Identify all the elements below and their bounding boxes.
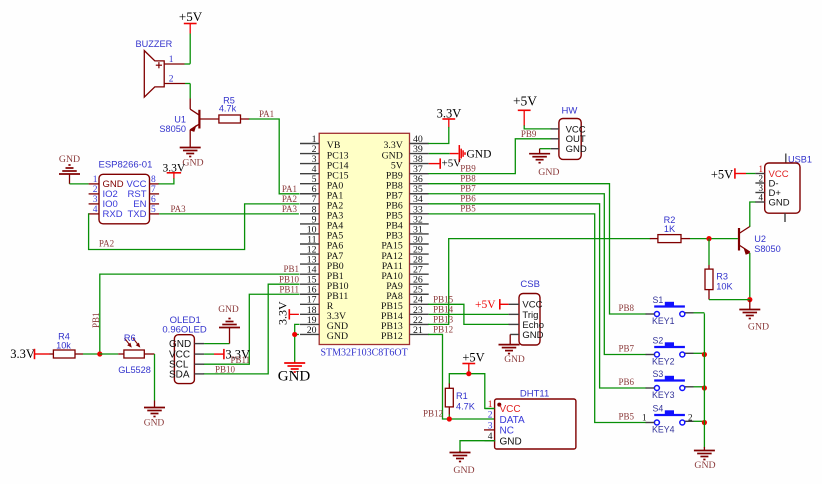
svg-text:10K: 10K xyxy=(716,281,733,291)
MCU U3 STM32F103C8T6 body xyxy=(319,133,409,344)
MCU pin 26 (PA9) stub and number xyxy=(386,275,428,292)
svg-text:PB10: PB10 xyxy=(279,274,300,284)
wire net PB10 from MCU pin 15 to OLED SDA xyxy=(204,284,299,374)
svg-text:2: 2 xyxy=(93,185,98,195)
MCU pin 10 (PA5) stub and number xyxy=(300,224,343,241)
DHT11 pin 2 DATA xyxy=(488,411,525,426)
MCU pin 22 (PB13) stub and number xyxy=(381,315,429,332)
CSB pin GND xyxy=(510,330,543,341)
svg-text:8: 8 xyxy=(151,175,156,185)
module HW label xyxy=(562,105,578,116)
svg-text:7: 7 xyxy=(151,185,156,195)
svg-text:HW: HW xyxy=(562,105,578,116)
resistor R4 xyxy=(50,350,84,358)
svg-text:S4: S4 xyxy=(653,404,664,414)
buzzer BZ1 label xyxy=(136,39,173,49)
net label PB11 (at MCU) xyxy=(279,284,299,294)
svg-text:2: 2 xyxy=(759,173,764,183)
svg-text:PB6: PB6 xyxy=(618,377,634,387)
svg-text:PA1: PA1 xyxy=(282,184,297,194)
label R5 xyxy=(223,95,235,105)
buzzer pin 2 xyxy=(164,75,190,85)
wire R6 to ground xyxy=(154,354,156,408)
MCU pin 35 (PB7) stub and number xyxy=(386,184,429,201)
svg-text:PB12: PB12 xyxy=(433,325,453,335)
net label PB10 (at MCU) xyxy=(279,274,300,284)
OLED pin VCC xyxy=(169,350,204,361)
MCU pin 32 (PB4) stub and number xyxy=(386,214,429,231)
module DHT11 label xyxy=(520,389,549,400)
svg-text:PB9: PB9 xyxy=(460,163,476,173)
wire 3.3V to MCU pin 40 xyxy=(429,128,449,144)
OLED pin SCL xyxy=(169,360,204,371)
switch S4 (KEY4) xyxy=(646,410,685,425)
MCU pin 15 (PB10) stub and number xyxy=(300,275,349,292)
MCU pin 25 (PA8) stub and number xyxy=(386,285,428,302)
svg-text:GND: GND xyxy=(278,369,311,385)
svg-text:ESP8266-01: ESP8266-01 xyxy=(99,159,153,170)
HW pin OUT xyxy=(551,134,586,145)
wire MCU pin 20 GND down to ground xyxy=(295,334,299,361)
module DHT11 body xyxy=(495,399,576,449)
module U2 ESP8266-01 body xyxy=(99,174,150,224)
svg-text:0.96OLED: 0.96OLED xyxy=(162,325,206,336)
svg-text:U1: U1 xyxy=(174,114,186,124)
net label PA3 (at ESP) xyxy=(171,204,187,214)
net label PB8 (at MCU) xyxy=(460,174,476,184)
MCU pin 30 (PA15) stub and number xyxy=(381,234,428,251)
wire right lead of S2 to common xyxy=(685,352,705,354)
junction at MCU pins 19/20 GND xyxy=(292,332,297,337)
svg-text:PB10: PB10 xyxy=(215,364,236,374)
wire OLED GND to ground (flipped up) xyxy=(204,328,229,344)
svg-text:GND: GND xyxy=(467,148,492,160)
wire MCU pin 39 to sideways ground xyxy=(429,153,459,155)
svg-text:21: 21 xyxy=(413,325,423,336)
wire net PA1 from R5 to MCU pin 6 xyxy=(250,119,299,194)
svg-text:+5V: +5V xyxy=(462,350,484,364)
net label PA2 (at MCU) xyxy=(282,194,297,204)
HW pin VCC xyxy=(551,124,586,135)
svg-text:PB15: PB15 xyxy=(433,294,454,304)
wire net PB15 from MCU pin 24 to CSB Echo xyxy=(429,304,509,324)
label R3 xyxy=(716,272,728,282)
CSB pin Trig xyxy=(509,310,539,321)
label 4.7k (R5 value) xyxy=(219,104,237,114)
wire 3.3V to ESP pin 8 xyxy=(159,179,174,184)
MCU label STM32F103C8T6OT xyxy=(321,347,408,358)
wire +5V junction to R1 and DHT VCC xyxy=(449,371,494,409)
svg-text:KEY3: KEY3 xyxy=(652,390,675,400)
MCU pin 40 (3.3V) stub and number xyxy=(383,134,428,151)
module CSB label xyxy=(520,279,540,290)
svg-text:1: 1 xyxy=(93,175,98,185)
wire HW GND to ground xyxy=(540,149,551,154)
OLED pin GND xyxy=(169,339,204,350)
svg-text:KEY2: KEY2 xyxy=(652,357,675,367)
net label PA1 (at R5) xyxy=(259,109,274,119)
svg-text:1K: 1K xyxy=(664,224,676,234)
svg-text:CSB: CSB xyxy=(520,279,540,290)
svg-text:TXD: TXD xyxy=(128,209,147,220)
label S4 xyxy=(653,404,664,414)
MCU pin 21 (PB12) stub and number xyxy=(381,325,429,342)
ground under HW xyxy=(529,154,559,179)
power +5V at HW module xyxy=(513,94,537,126)
MCU pin 1 (VB) stub and number xyxy=(300,134,341,151)
svg-text:+5V: +5V xyxy=(475,299,496,311)
svg-text:GND: GND xyxy=(182,158,203,169)
svg-text:GND: GND xyxy=(538,167,559,178)
CSB pin VCC xyxy=(509,300,543,311)
MCU pin 39 (GND) stub and number xyxy=(382,144,429,161)
wire right lead of S3 to common xyxy=(685,386,705,388)
svg-text:R6: R6 xyxy=(124,333,136,343)
wire +5V to buzzer pin 1 xyxy=(189,34,191,64)
svg-text:PB1: PB1 xyxy=(283,264,299,274)
svg-text:3: 3 xyxy=(93,195,98,205)
MCU pin 34 (PB6) stub and number xyxy=(386,194,429,211)
MCU pin 18 (3.3V) stub and number xyxy=(300,305,346,322)
wire net PB13 from MCU pin 22 to R2 xyxy=(429,239,650,325)
svg-text:4.7k: 4.7k xyxy=(219,104,237,114)
label R1 xyxy=(456,391,468,401)
MCU pin 14 (PB1) stub and number xyxy=(300,265,344,282)
svg-text:S8050: S8050 xyxy=(754,244,781,254)
svg-text:GND: GND xyxy=(218,305,239,315)
MCU pin 23 (PB14) stub and number xyxy=(381,305,429,322)
MCU pin 7 (PA2) stub and number xyxy=(300,194,343,211)
label 4.7K (R1 value) xyxy=(456,402,476,412)
switch S2 (KEY2) xyxy=(646,342,685,357)
HW pin GND xyxy=(551,144,587,155)
module OLED1 label xyxy=(170,315,201,326)
USB1 pin 4 GND xyxy=(755,192,789,208)
wire net PB6 from MCU pin 34 to KEY3 xyxy=(429,204,646,388)
connector USB1 body xyxy=(765,163,800,222)
ground at ESP8266 pin 1 (flipped up) xyxy=(59,154,80,184)
ESP8266 pin 5 stub xyxy=(150,205,160,215)
wire net PB5 from MCU pin 33 to KEY4 xyxy=(429,214,646,423)
switch S1 (KEY1) xyxy=(646,302,685,317)
ground at MCU pin 39 (sideways) xyxy=(459,145,491,162)
ESP8266 pin 6 stub xyxy=(150,195,160,205)
wire net PB8 from MCU pin 36 to KEY1 xyxy=(429,184,646,314)
ground above OLED xyxy=(218,305,240,327)
transistor U2 S8050 xyxy=(739,226,751,255)
wire net PB7 from MCU pin 35 to KEY2 xyxy=(429,194,646,355)
label S8050 (U2 value) xyxy=(754,244,781,254)
net label PB5 (at MCU) xyxy=(460,204,476,214)
DHT11 pin 1 VCC xyxy=(485,400,521,415)
pin numbers 1 and 2 of S4 xyxy=(642,412,693,422)
buzzer symbol xyxy=(144,51,164,98)
ESP8266 pin 4 stub xyxy=(89,205,99,215)
label R4 xyxy=(58,331,70,341)
power 3.3V at R4 (left) xyxy=(10,347,49,361)
OLED pin SDA xyxy=(169,369,204,380)
wire ESP pin1 to ground xyxy=(70,183,89,185)
USB1 pin 1 VCC xyxy=(755,164,788,180)
power +5V at MCU pin 38 xyxy=(429,158,462,170)
MCU pin 17 (R) stub and number xyxy=(300,295,334,312)
svg-text:1: 1 xyxy=(759,164,764,174)
USB1 pin 2 D- xyxy=(755,173,778,189)
MCU pin 5 (PA0) stub and number xyxy=(300,174,343,191)
svg-text:GND: GND xyxy=(504,355,525,365)
label KEY2 xyxy=(652,357,675,367)
net label PB7 (at MCU) xyxy=(460,184,476,194)
junction at KEY2 common xyxy=(702,352,707,357)
label KEY3 xyxy=(652,390,675,400)
MCU pin 33 (PB5) stub and number xyxy=(386,204,429,221)
MCU pin 31 (PB3) stub and number xyxy=(386,224,429,241)
svg-text:4.7K: 4.7K xyxy=(456,402,476,412)
MCU pin 36 (PB8) stub and number xyxy=(386,174,429,191)
svg-text:GND: GND xyxy=(169,339,191,350)
wire buzzer pin2 to U1 collector xyxy=(189,84,191,99)
svg-text:S3: S3 xyxy=(653,369,664,379)
svg-text:4: 4 xyxy=(93,205,98,215)
net label PA1 (at MCU) xyxy=(282,184,297,194)
label KEY4 xyxy=(652,425,675,435)
svg-text:R3: R3 xyxy=(716,272,728,282)
label 1K (R2 value) xyxy=(664,224,676,234)
ESP8266 pin 7 stub xyxy=(150,185,160,195)
label U1 xyxy=(174,114,186,124)
net label PB8 (at KEY1) xyxy=(618,303,634,313)
wire net PB9 from MCU pin 37 to HW OUT xyxy=(429,139,551,174)
module CSB body xyxy=(519,294,540,346)
CSB pin Echo xyxy=(509,320,544,331)
MCU pin 38 (5V) stub and number xyxy=(391,154,429,171)
svg-text:5: 5 xyxy=(151,205,156,215)
ESP8266 pin 8 stub xyxy=(150,175,160,185)
MCU pin 2 (PC13) stub and number xyxy=(300,144,349,161)
svg-text:PA1: PA1 xyxy=(259,109,274,119)
svg-text:3: 3 xyxy=(759,183,764,193)
label 10k (R4 value) xyxy=(56,340,71,350)
svg-text:STM32F103C8T6OT: STM32F103C8T6OT xyxy=(321,347,408,358)
MCU pin 27 (PA10) stub and number xyxy=(381,265,428,282)
switch S3 (KEY3) xyxy=(646,376,685,391)
junction PB1 / R4 / R6 xyxy=(97,351,102,356)
svg-text:GND: GND xyxy=(694,460,715,471)
net label PB6 (at MCU) xyxy=(460,194,476,204)
junction at +5V DHT xyxy=(466,371,471,376)
MCU pin 28 (PA11) stub and number xyxy=(382,255,429,272)
MCU pin 13 (PB0) stub and number xyxy=(300,255,344,272)
wire junction to R6 xyxy=(100,353,118,355)
net label PA3 (at MCU) xyxy=(282,204,298,214)
resistor R1 xyxy=(445,384,453,420)
svg-text:GND: GND xyxy=(566,144,587,155)
MCU pin 4 (PC15) stub and number xyxy=(300,164,349,181)
label R2 xyxy=(664,215,676,225)
label 10K (R3 value) xyxy=(716,281,733,291)
label S1 xyxy=(653,295,664,305)
MCU pin 24 (PB15) stub and number xyxy=(381,295,429,312)
wire OLED VCC to 3.3V xyxy=(204,353,224,355)
junction at KEY4 common xyxy=(702,420,707,425)
svg-text:PB8: PB8 xyxy=(460,174,476,184)
transistor U1 S8050 xyxy=(190,99,200,148)
net label PB1 (vertical) xyxy=(91,312,101,328)
wire right lead of S1 to common xyxy=(685,312,705,314)
svg-text:4: 4 xyxy=(759,192,764,202)
wire net PB1 from MCU pin 14 to R4/R6 junction xyxy=(100,274,299,354)
label KEY1 xyxy=(652,316,675,326)
MCU pin 37 (PB9) stub and number xyxy=(386,164,429,181)
power 3.3V at ESP pin 8 xyxy=(163,163,186,179)
junction at KEY3 common xyxy=(702,385,707,390)
wire net PB14 from MCU pin 23 to CSB Trig xyxy=(429,313,509,315)
DHT11 pin 4 GND xyxy=(485,432,522,447)
svg-text:U2: U2 xyxy=(754,234,766,244)
net label PB10 (at OLED) xyxy=(215,364,236,374)
svg-text:GND: GND xyxy=(500,436,522,447)
wire net PA3 from ESP pin 5 to MCU pin 8 xyxy=(159,213,299,215)
resistor R3 xyxy=(705,239,750,300)
ground under CSB xyxy=(499,345,525,365)
svg-text:GND: GND xyxy=(748,322,769,333)
svg-text:R1: R1 xyxy=(456,391,468,401)
power 3.3V at MCU pin 40 xyxy=(437,106,462,127)
junction at R1 bottom / DATA xyxy=(447,416,452,421)
svg-text:GND: GND xyxy=(769,198,790,209)
net label PB12 (at DHT11) xyxy=(423,408,443,418)
net label PB7 (at KEY2) xyxy=(618,344,634,354)
junction at U2 base / R3 xyxy=(706,236,711,241)
svg-text:S8050: S8050 xyxy=(159,124,186,134)
power +5V at CSB (red) xyxy=(475,299,509,311)
ground under DHT11 xyxy=(450,451,475,476)
svg-text:PA3: PA3 xyxy=(171,204,187,214)
buzzer pin 1 xyxy=(164,55,190,65)
net label PA2 (near ESP) xyxy=(99,238,114,248)
svg-text:BUZZER: BUZZER xyxy=(136,39,173,49)
svg-text:GND: GND xyxy=(453,465,474,476)
ground at MCU pin 20 (red) xyxy=(278,362,311,385)
svg-text:PB1: PB1 xyxy=(91,312,101,328)
ESP8266 pin names row3 IO0 EN xyxy=(103,199,147,210)
net label PB5 (at KEY4) xyxy=(618,412,634,422)
junction at U2 emitter / R3 xyxy=(747,297,752,302)
net label PB12 (at MCU) xyxy=(433,325,453,335)
svg-text:SDA: SDA xyxy=(169,369,190,380)
svg-text:GL5528: GL5528 xyxy=(118,365,151,375)
svg-text:+5V: +5V xyxy=(711,168,733,182)
power 3.3V at MCU pin 18 (rotated) xyxy=(276,301,299,325)
svg-text:10k: 10k xyxy=(56,340,71,350)
module HW body xyxy=(559,119,581,160)
ESP8266 pin names row4 RXD TXD xyxy=(103,209,147,220)
ground under U2 xyxy=(739,300,769,333)
power 3.3V at OLED VCC xyxy=(224,347,250,361)
net label PB15 (at MCU) xyxy=(433,294,454,304)
svg-text:1: 1 xyxy=(642,412,647,422)
svg-text:+5V: +5V xyxy=(513,94,537,109)
wire U2 collector to USB GND pin xyxy=(750,202,756,226)
wire R2 to U2 base xyxy=(690,238,738,240)
MCU pin 19 (GND) stub and number xyxy=(300,315,348,332)
label U2 xyxy=(754,234,766,244)
svg-text:DHT11: DHT11 xyxy=(520,389,549,400)
MCU pin 12 (PA7) stub and number xyxy=(300,244,343,261)
label S2 xyxy=(653,336,664,346)
module ESP8266-01 label xyxy=(99,159,153,170)
svg-text:S2: S2 xyxy=(653,336,664,346)
svg-text:RXD: RXD xyxy=(103,209,123,220)
MCU pin 16 (PB11) stub and number xyxy=(300,285,348,302)
svg-text:PB5: PB5 xyxy=(460,204,476,214)
wire U2 emitter down xyxy=(749,253,751,300)
svg-text:PA2: PA2 xyxy=(99,238,114,248)
net label PB11 (at OLED) xyxy=(231,355,251,365)
module OLED1 value 0.96OLED xyxy=(162,325,206,336)
wire net PB11 from MCU pin 16 to OLED SCL xyxy=(204,294,299,364)
svg-text:PB14: PB14 xyxy=(433,304,454,314)
svg-text:PB7: PB7 xyxy=(618,344,634,354)
photoresistor R6 GL5528 xyxy=(118,338,154,358)
svg-text:VCC: VCC xyxy=(500,404,521,415)
net label PB9 (at HW) xyxy=(521,129,537,139)
power +5V at DHT11/R1 xyxy=(462,350,484,371)
svg-text:PB11: PB11 xyxy=(279,284,299,294)
svg-text:PA2: PA2 xyxy=(282,194,297,204)
svg-text:2: 2 xyxy=(688,412,693,422)
MCU pin 29 (PA12) stub and number xyxy=(381,244,428,261)
svg-text:GND: GND xyxy=(522,330,543,341)
svg-text:6: 6 xyxy=(151,195,156,205)
wire +5V to USB VCC xyxy=(746,173,755,175)
label S3 xyxy=(653,369,664,379)
ground under U1 xyxy=(180,148,204,169)
label S8050 (U1 value) xyxy=(159,124,186,134)
svg-text:PB7: PB7 xyxy=(460,184,476,194)
MCU pin 6 (PA1) stub and number xyxy=(300,184,343,201)
svg-text:GND: GND xyxy=(144,419,165,429)
svg-text:PB12: PB12 xyxy=(423,408,443,418)
wire R4 to junction xyxy=(83,353,100,355)
svg-text:PB5: PB5 xyxy=(618,412,634,422)
svg-text:KEY4: KEY4 xyxy=(652,425,675,435)
net label PB1 (at MCU) xyxy=(283,264,299,274)
svg-text:GND: GND xyxy=(59,154,80,165)
net label PB14 (at MCU) xyxy=(433,304,454,314)
label GL5528 (R6 value) xyxy=(118,365,151,375)
ESP8266 pin 1 stub xyxy=(89,175,99,185)
MCU pin 9 (PA4) stub and number xyxy=(300,214,343,231)
svg-text:PB6: PB6 xyxy=(460,194,476,204)
ESP8266 pin names row2 IO2 RST xyxy=(103,189,147,200)
wire +5V to HW VCC xyxy=(524,126,551,129)
svg-text:3.3V: 3.3V xyxy=(276,301,290,325)
power +5V at USB1 xyxy=(711,168,746,182)
label R6 xyxy=(124,333,136,343)
wire MCU pin 19 GND to junction xyxy=(295,324,299,334)
wire net PB12 from MCU pin 21 to DHT DATA xyxy=(429,334,495,419)
wire right lead of S4 to common xyxy=(685,420,705,422)
net label PB9 (at MCU) xyxy=(460,163,476,173)
net label PB6 (at KEY3) xyxy=(618,377,634,387)
MCU pin 11 (PA6) stub and number xyxy=(300,234,343,251)
power +5V (buzzer supply) xyxy=(179,9,203,34)
wire DHT GND to ground xyxy=(460,441,495,451)
ESP8266 pin 2 stub xyxy=(89,185,99,195)
svg-text:2: 2 xyxy=(488,411,493,421)
MCU pin 8 (PA3) stub and number xyxy=(300,204,343,221)
